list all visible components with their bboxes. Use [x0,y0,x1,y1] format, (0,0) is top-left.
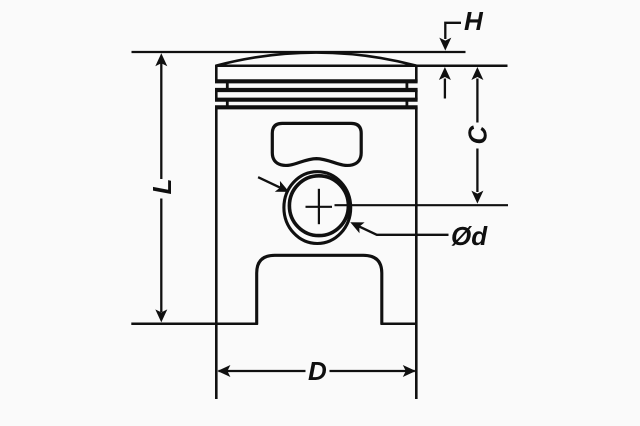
land left edge [215,90,218,100]
bottom edge right [381,323,418,326]
dimension D line [219,370,306,372]
pin centerline extension [335,204,509,206]
L top arrow [155,53,167,66]
body left edge + D left extension [215,107,218,399]
C lower arrow [471,191,483,204]
svg-text:Ød: Ød [451,221,488,251]
dimension L line [160,63,162,179]
C line lower [476,149,478,193]
top extension line [132,51,466,53]
H up arrow below crown line [439,67,451,80]
svg-text:C: C [463,125,493,145]
svg-text:D: D [308,356,327,386]
H up arrow stem [444,79,446,99]
groove 2 right bottom [405,100,408,108]
crown band left edge [215,65,218,82]
ring line 3 [215,98,418,102]
groove 2 left bottom [226,100,229,108]
H leader [445,23,461,39]
pin bore circle [289,176,348,236]
crown band right edge [415,65,418,82]
crosshair horizontal [306,206,333,208]
Od pointer [354,224,449,235]
bottom edge left + L extension [131,323,258,326]
H down arrow [439,38,451,51]
D right arrow [403,365,416,377]
body right edge + D right extension [415,107,418,399]
piston dome crown [216,53,416,66]
groove 1 right bottom [405,81,408,90]
window cutout [272,123,361,165]
D left arrow [217,365,230,377]
crown edge line + right extension line [215,65,507,68]
svg-text:H: H [464,6,484,36]
land right edge [415,90,418,100]
pin pointer arrow upper-left [258,177,280,187]
ring line 4 [215,105,418,109]
L bottom arrow [155,309,167,322]
skirt arch cutout [257,255,382,324]
svg-text:L: L [147,179,177,195]
dimension C upper arrow [471,67,483,80]
C line upper [476,79,478,123]
ring line 2 [215,88,418,92]
groove 1 left bottom [226,81,229,90]
ring line 1 (bottom of crown land) [215,79,418,83]
crosshair vertical [318,189,320,224]
pin boss outer circle [284,172,351,244]
